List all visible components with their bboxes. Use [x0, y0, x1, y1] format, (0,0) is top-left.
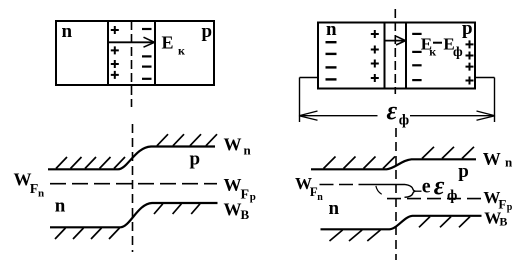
- svg-text:W: W: [224, 175, 242, 195]
- svg-text:n: n: [38, 187, 44, 199]
- svg-text:n: n: [505, 155, 513, 170]
- svg-text:n: n: [55, 196, 66, 217]
- svg-text:n: n: [329, 198, 340, 219]
- svg-text:p: p: [190, 149, 201, 170]
- svg-text:B: B: [241, 207, 250, 222]
- svg-text:W: W: [14, 170, 32, 190]
- svg-text:p: p: [458, 161, 469, 182]
- svg-text:W: W: [224, 199, 242, 219]
- svg-text:p: p: [507, 202, 513, 213]
- svg-text:ф: ф: [447, 188, 457, 204]
- svg-text:E: E: [162, 33, 174, 53]
- svg-text:n: n: [326, 19, 337, 40]
- svg-text:p: p: [250, 191, 256, 203]
- svg-text:n: n: [244, 143, 252, 158]
- svg-text:B: B: [499, 214, 507, 228]
- svg-text:p: p: [202, 21, 213, 42]
- svg-text:к: к: [429, 44, 436, 58]
- svg-text:к: к: [178, 44, 185, 58]
- svg-text:n: n: [317, 192, 323, 203]
- svg-text:ε: ε: [434, 171, 445, 200]
- svg-text:ε: ε: [387, 96, 398, 125]
- svg-text:p: p: [462, 18, 473, 39]
- svg-text:ф: ф: [399, 113, 409, 129]
- svg-text:F: F: [241, 188, 250, 203]
- svg-text:n: n: [62, 21, 73, 42]
- svg-text:W: W: [224, 135, 242, 155]
- svg-text:ф: ф: [453, 45, 463, 60]
- svg-text:e: e: [422, 176, 431, 198]
- svg-text:W: W: [483, 149, 501, 169]
